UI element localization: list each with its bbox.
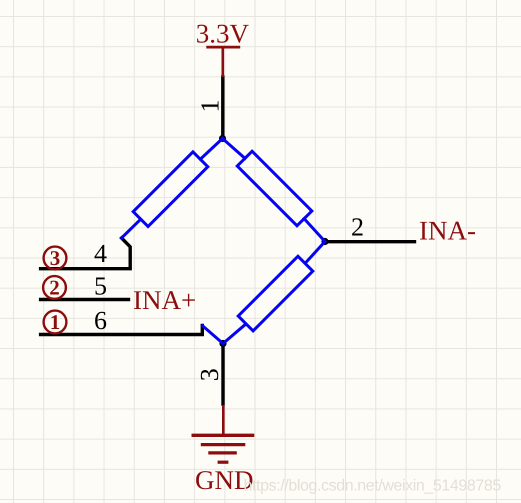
svg-text:2: 2 — [49, 276, 60, 300]
svg-text:3.3V: 3.3V — [196, 18, 250, 48]
svg-text:2: 2 — [351, 213, 364, 242]
svg-text:INA-: INA- — [419, 215, 476, 245]
svg-text:5: 5 — [94, 272, 107, 301]
svg-text:1: 1 — [196, 100, 225, 113]
svg-text:1: 1 — [50, 310, 61, 334]
svg-text:4: 4 — [94, 239, 107, 268]
svg-text:INA+: INA+ — [133, 285, 196, 315]
svg-text:6: 6 — [94, 306, 107, 335]
svg-text:3: 3 — [50, 246, 61, 270]
svg-text:3: 3 — [195, 368, 224, 381]
svg-text:https://blog.csdn.net/weixin_5: https://blog.csdn.net/weixin_51498785 — [244, 478, 502, 495]
